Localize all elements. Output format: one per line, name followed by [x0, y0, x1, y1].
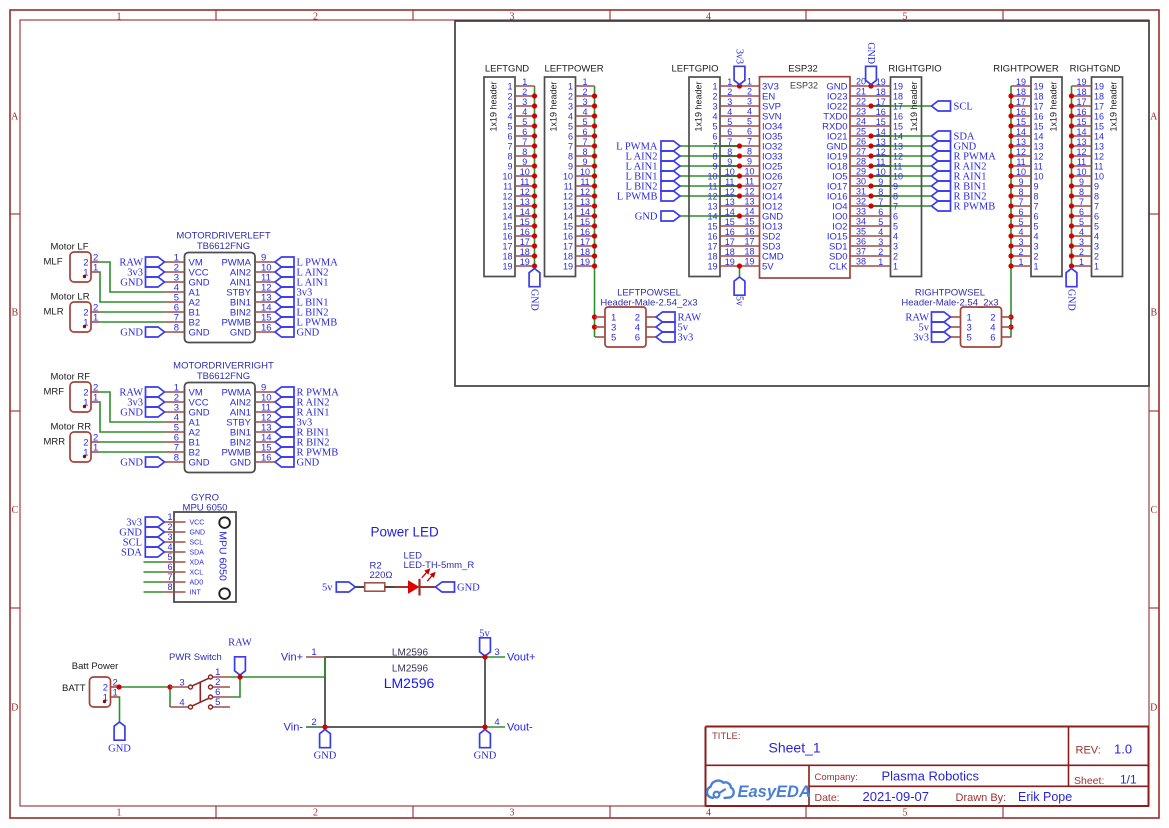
svg-text:13: 13	[893, 142, 903, 152]
svg-text:9: 9	[1018, 177, 1023, 187]
IC MOTORDRIVERLEFT right pins	[221, 253, 275, 339]
net flag 3v3 at GYRO pin 1	[126, 517, 164, 529]
svg-text:18: 18	[893, 92, 903, 102]
svg-text:SCL: SCL	[190, 540, 204, 547]
svg-text:LEFTPOWER: LEFTPOWER	[544, 64, 603, 75]
svg-text:16: 16	[876, 107, 886, 117]
svg-text:3: 3	[1034, 242, 1039, 252]
connector MLR box	[44, 292, 92, 333]
svg-text:LEFTGND: LEFTGND	[485, 64, 529, 75]
svg-text:12: 12	[580, 187, 590, 197]
svg-text:16: 16	[580, 227, 590, 237]
svg-text:LM2596: LM2596	[384, 675, 435, 691]
svg-text:ESP32: ESP32	[788, 64, 818, 75]
svg-text:GND: GND	[120, 328, 143, 339]
svg-text:TB6612FNG: TB6612FNG	[197, 241, 250, 252]
svg-text:16: 16	[261, 453, 272, 464]
svg-text:RIGHTPOWER: RIGHTPOWER	[993, 64, 1059, 75]
svg-text:4: 4	[507, 112, 512, 122]
svg-text:5: 5	[568, 122, 573, 132]
svg-text:3: 3	[582, 97, 587, 107]
svg-text:19: 19	[520, 257, 530, 267]
svg-text:8: 8	[1034, 192, 1039, 202]
svg-text:ESP32: ESP32	[790, 81, 818, 91]
svg-text:C: C	[1150, 505, 1157, 516]
svg-text:15: 15	[1016, 117, 1026, 127]
net flag GND at MOTORDRIVERRIGHT pin 3	[120, 407, 164, 419]
svg-text:9: 9	[1034, 182, 1039, 192]
svg-text:5: 5	[215, 697, 220, 708]
svg-text:6: 6	[568, 132, 573, 142]
wire overlays crossing LEFTGPIO stubs	[720, 146, 740, 216]
svg-text:9: 9	[507, 162, 512, 172]
ground flag GND below BATT	[108, 722, 131, 755]
svg-text:16: 16	[725, 227, 735, 237]
svg-text:2: 2	[1018, 247, 1023, 257]
LM2596 pin 1 Vin+	[281, 647, 325, 664]
connector RIGHTPOWSEL pins	[951, 313, 1012, 344]
svg-text:12: 12	[563, 192, 573, 202]
net flag L AIN1 at MOTORDRIVERLEFT pin 11	[275, 277, 328, 289]
svg-text:12: 12	[1094, 152, 1104, 162]
svg-text:11: 11	[580, 177, 589, 187]
svg-text:14: 14	[563, 212, 573, 222]
svg-text:11: 11	[708, 182, 717, 192]
svg-text:4: 4	[167, 542, 172, 552]
svg-text:4: 4	[706, 808, 711, 819]
svg-text:GND: GND	[120, 408, 143, 419]
svg-text:13: 13	[725, 197, 735, 207]
svg-text:13: 13	[520, 197, 530, 207]
svg-text:Erik Pope: Erik Pope	[1018, 790, 1072, 804]
svg-text:15: 15	[725, 217, 735, 227]
svg-text:17: 17	[1034, 102, 1044, 112]
ESP32 left pins 1-19	[740, 77, 784, 273]
wire R BIN1 flag to RIGHTGPIO pin 9	[871, 185, 932, 187]
svg-text:2: 2	[311, 717, 316, 728]
svg-text:2: 2	[507, 92, 512, 102]
svg-text:17: 17	[725, 237, 735, 247]
svg-text:6: 6	[893, 212, 898, 222]
net flag L PWMB at LEFTGPIO pin 12	[617, 191, 680, 203]
header RIGHTGND box	[1070, 64, 1123, 277]
wire motor F pin1 to A2	[99, 402, 165, 432]
connector BATT box	[62, 661, 118, 707]
svg-text:MLR: MLR	[44, 307, 64, 318]
wire motor F pin2 to A1	[99, 262, 165, 292]
IC MOTORDRIVERRIGHT right pins	[221, 383, 275, 469]
net flag RAW at RIGHTPOWSEL pin 1	[905, 312, 950, 324]
svg-text:6: 6	[522, 127, 527, 137]
IC GYRO pins	[164, 512, 205, 597]
svg-text:GND: GND	[314, 751, 337, 762]
svg-text:16: 16	[1076, 107, 1086, 117]
wire switch pin1 to LM2596 Vin+	[230, 657, 325, 677]
header LEFTGND box	[484, 64, 529, 277]
wire R PWMA flag to RIGHTGPIO pin 12	[871, 155, 932, 157]
svg-text:37: 37	[856, 247, 866, 257]
svg-text:PWR Switch: PWR Switch	[169, 652, 222, 663]
svg-text:22: 22	[856, 97, 866, 107]
svg-text:2: 2	[712, 92, 717, 102]
wire BATT pin2 to switch	[119, 687, 170, 707]
svg-text:6: 6	[167, 562, 172, 572]
connector MLF box	[44, 242, 92, 283]
connector MRF box	[44, 372, 92, 413]
svg-text:3v3: 3v3	[678, 333, 694, 344]
connector MRR pin1 marker	[83, 455, 86, 458]
net flag SDA at GYRO pin 4	[121, 547, 164, 559]
svg-text:16: 16	[893, 112, 903, 122]
svg-text:7: 7	[893, 202, 898, 212]
svg-text:GND: GND	[457, 583, 480, 594]
ESP32 right pins 20-38	[822, 77, 871, 273]
svg-text:5v: 5v	[734, 296, 745, 306]
header RIGHTGPIO pins	[871, 77, 903, 272]
ground flag GND at Vin-	[314, 730, 337, 762]
svg-text:5: 5	[1079, 217, 1084, 227]
svg-text:11: 11	[503, 182, 512, 192]
svg-text:17: 17	[520, 237, 530, 247]
net flag GND at RIGHTGPIO pin 13	[932, 141, 977, 153]
net flag SDA at RIGHTGPIO pin 14	[932, 131, 975, 143]
svg-text:Vout+: Vout+	[507, 652, 535, 664]
svg-text:2: 2	[727, 87, 732, 97]
svg-text:19: 19	[1076, 77, 1086, 87]
wire switch pin6 to RAW	[230, 677, 240, 697]
svg-text:Header-Male-2.54_2x3: Header-Male-2.54_2x3	[901, 297, 998, 308]
net flag 3v3 at MOTORDRIVERRIGHT pin 2	[127, 397, 164, 409]
connector MLF pins	[83, 253, 99, 279]
svg-text:1/1: 1/1	[1120, 773, 1137, 787]
svg-text:4: 4	[582, 107, 587, 117]
IC MOTORDRIVERRIGHT TB6612FNG box	[173, 361, 274, 473]
svg-text:2: 2	[1079, 247, 1084, 257]
header LEFTPOWER pins	[563, 77, 595, 272]
svg-text:16: 16	[502, 232, 512, 242]
svg-text:32: 32	[856, 197, 866, 207]
svg-text:VCC: VCC	[190, 520, 205, 527]
net flag L AIN1 at LEFTGPIO pin 9	[626, 161, 680, 173]
power flag 5v below ESP32 pin19	[734, 277, 745, 306]
connector MRR pins	[83, 433, 99, 459]
svg-text:Sheet:: Sheet:	[1074, 775, 1104, 787]
svg-text:17: 17	[580, 237, 590, 247]
wire overlay at LM2596 Vin+ corner	[324, 656, 326, 677]
svg-text:RIGHTGND: RIGHTGND	[1070, 64, 1121, 75]
svg-text:Vin-: Vin-	[284, 722, 304, 734]
svg-text:17: 17	[502, 242, 512, 252]
net flag GND at GYRO pin 2	[119, 527, 164, 539]
svg-text:A: A	[1150, 112, 1158, 123]
svg-text:5v: 5v	[322, 583, 333, 594]
svg-text:LM2596: LM2596	[392, 648, 429, 659]
svg-text:27: 27	[856, 147, 866, 157]
svg-text:8: 8	[1079, 187, 1084, 197]
net flag R PWMB at RIGHTGPIO pin 7	[932, 201, 996, 213]
svg-text:Power LED: Power LED	[371, 525, 440, 540]
svg-text:TB6612FNG: TB6612FNG	[197, 371, 250, 382]
svg-text:7: 7	[1034, 202, 1039, 212]
net flag 3v3 at RIGHTPOWSEL pin 5	[913, 332, 950, 344]
svg-text:AD0: AD0	[190, 580, 204, 587]
EasyEDA logo	[707, 781, 811, 801]
svg-text:1: 1	[311, 647, 316, 658]
svg-text:GND: GND	[189, 458, 210, 469]
svg-text:12: 12	[1034, 152, 1044, 162]
svg-text:2: 2	[1034, 252, 1039, 262]
svg-text:GND: GND	[230, 328, 251, 339]
svg-text:1: 1	[1094, 262, 1099, 272]
svg-text:15: 15	[563, 222, 573, 232]
svg-text:4: 4	[1034, 232, 1039, 242]
svg-text:5: 5	[967, 333, 972, 344]
net flag 3v3 at LEFTPOWSEL pin 6	[656, 332, 693, 344]
svg-text:7: 7	[747, 137, 752, 147]
header LEFTPOWER box	[544, 64, 603, 277]
svg-text:10: 10	[1034, 172, 1044, 182]
svg-text:18: 18	[725, 247, 735, 257]
svg-text:14: 14	[1034, 132, 1044, 142]
svg-text:5: 5	[582, 117, 587, 127]
wire 5v flag to R2	[355, 586, 364, 588]
net flag 3v3 at MOTORDRIVERLEFT pin 2	[127, 267, 164, 279]
junction switch input	[167, 684, 172, 689]
svg-text:11: 11	[1034, 162, 1043, 172]
svg-text:4: 4	[179, 697, 184, 708]
net flag GND at MOTORDRIVERLEFT pin 8	[120, 327, 164, 339]
net flag SCL at GYRO pin 3	[123, 537, 165, 549]
svg-text:1: 1	[582, 77, 587, 87]
svg-text:MRF: MRF	[44, 387, 65, 398]
svg-text:Date:: Date:	[815, 792, 840, 804]
header RIGHTGPIO box	[888, 64, 941, 277]
wire GND flag to RIGHTGPIO pin 13	[871, 145, 932, 147]
svg-text:5: 5	[903, 808, 908, 819]
connector MLR pin1 marker	[83, 325, 86, 328]
svg-text:GND: GND	[108, 744, 131, 755]
regulator LM2596 outline	[325, 648, 485, 728]
svg-text:13: 13	[563, 202, 573, 212]
wire LEFTGND bus	[534, 86, 536, 267]
svg-text:16: 16	[1016, 107, 1026, 117]
svg-text:17: 17	[893, 102, 903, 112]
svg-text:2: 2	[313, 11, 318, 22]
wire GND flag to LEFTGPIO pin 14	[680, 215, 740, 217]
svg-text:7: 7	[568, 142, 573, 152]
svg-text:8: 8	[712, 152, 717, 162]
svg-text:5: 5	[1094, 222, 1099, 232]
junctions ESP32 right column	[868, 83, 873, 208]
svg-text:16: 16	[707, 232, 717, 242]
svg-text:6: 6	[727, 127, 732, 137]
net flag R BIN2 at RIGHTGPIO pin 8	[932, 191, 987, 203]
svg-text:BATT: BATT	[62, 683, 86, 694]
svg-text:Motor RR: Motor RR	[51, 422, 92, 433]
svg-text:CLK: CLK	[829, 262, 848, 273]
ground flag GND below RIGHTGND	[1066, 269, 1077, 311]
svg-text:1: 1	[117, 808, 122, 819]
net flag R PWMA at RIGHTGPIO pin 12	[932, 151, 997, 163]
svg-text:15: 15	[502, 222, 512, 232]
connector LEFTPOWSEL box	[600, 288, 697, 348]
wire R2 to LED	[385, 586, 408, 588]
svg-text:8: 8	[568, 152, 573, 162]
svg-text:1: 1	[727, 77, 732, 87]
svg-text:20: 20	[856, 77, 866, 87]
wire R AIN1 flag to RIGHTGPIO pin 10	[871, 175, 932, 177]
svg-text:MRR: MRR	[44, 437, 66, 448]
header LEFTGPIO box	[672, 64, 720, 277]
svg-text:6: 6	[747, 127, 752, 137]
wire SDA flag to RIGHTGPIO pin 14	[871, 135, 932, 137]
svg-text:LEFTGPIO: LEFTGPIO	[672, 64, 719, 75]
junctions ESP32 left column	[737, 83, 742, 268]
net flag L AIN2 at MOTORDRIVERLEFT pin 10	[275, 267, 328, 279]
svg-text:6: 6	[507, 132, 512, 142]
header LEFTGPIO pins	[707, 77, 739, 272]
resistor R2 220ohm	[365, 561, 393, 592]
svg-text:6: 6	[582, 127, 587, 137]
net flag L BIN1 at LEFTGPIO pin 10	[626, 171, 680, 183]
svg-text:18: 18	[1034, 92, 1044, 102]
svg-text:Drawn By:: Drawn By:	[956, 792, 1007, 804]
svg-text:19: 19	[893, 82, 903, 92]
svg-text:31: 31	[856, 187, 866, 197]
svg-text:5: 5	[522, 117, 527, 127]
wire SCL flag to RIGHTGPIO pin 17	[871, 105, 932, 107]
svg-text:LED-TH-5mm_R: LED-TH-5mm_R	[404, 560, 475, 571]
net flag GND at MOTORDRIVERLEFT pin 16	[275, 327, 320, 339]
svg-text:2: 2	[582, 87, 587, 97]
wire 5v stub below ESP32 pin 19	[739, 266, 741, 277]
net flag GND at LEFTGPIO pin 14	[635, 211, 680, 223]
svg-text:4: 4	[878, 227, 883, 237]
svg-text:3v3: 3v3	[913, 333, 929, 344]
wire LEFTPOWER bus	[594, 86, 596, 337]
svg-text:Motor LF: Motor LF	[51, 242, 89, 253]
junctions RIGHTGND bus	[1069, 93, 1074, 268]
net flag 3v3 at MOTORDRIVERLEFT pin 12	[275, 287, 312, 299]
svg-text:17: 17	[1016, 97, 1026, 107]
svg-text:10: 10	[1076, 167, 1086, 177]
svg-text:36: 36	[856, 237, 866, 247]
svg-text:9: 9	[568, 162, 573, 172]
wire RIGHTGND bus	[1071, 86, 1073, 267]
svg-text:3: 3	[1094, 242, 1099, 252]
title block	[706, 727, 1150, 807]
net flag L PWMA at LEFTGPIO pin 7	[616, 141, 680, 153]
connector LEFTPOWSEL pins	[595, 313, 656, 344]
svg-text:6: 6	[635, 333, 640, 344]
svg-text:3: 3	[893, 242, 898, 252]
svg-text:SCL: SCL	[954, 102, 973, 113]
net flag 5v at LEFTPOWSEL pin 4	[656, 322, 689, 334]
IC GYRO MPU 6050 box	[174, 493, 236, 603]
svg-text:11: 11	[520, 177, 529, 187]
svg-text:24: 24	[856, 117, 866, 127]
svg-text:1: 1	[93, 393, 98, 404]
ground flag GND above ESP32 pin20	[865, 42, 876, 84]
svg-text:MPU 6050: MPU 6050	[217, 531, 229, 581]
svg-text:220Ω: 220Ω	[370, 570, 393, 581]
svg-text:9: 9	[747, 157, 752, 167]
svg-text:1: 1	[167, 512, 172, 522]
svg-text:18: 18	[502, 252, 512, 262]
ground flag GND after LED	[436, 582, 481, 594]
svg-text:17: 17	[1076, 97, 1086, 107]
svg-text:12: 12	[1016, 147, 1026, 157]
svg-text:18: 18	[1094, 92, 1104, 102]
svg-text:19: 19	[580, 257, 590, 267]
LM2596 pin 2 Vin-	[284, 717, 325, 734]
svg-text:6: 6	[712, 132, 717, 142]
svg-text:1x19 header: 1x19 header	[1109, 81, 1119, 131]
svg-text:3: 3	[507, 102, 512, 112]
svg-text:1: 1	[1034, 262, 1039, 272]
svg-text:5: 5	[747, 117, 752, 127]
svg-text:MLF: MLF	[44, 257, 63, 268]
switch PWR Switch	[169, 652, 230, 709]
net flag SCL at RIGHTGPIO pin 17	[932, 101, 973, 113]
svg-text:3: 3	[522, 97, 527, 107]
module U? ESP32 box	[760, 64, 851, 279]
svg-text:11: 11	[1094, 162, 1103, 172]
svg-text:1: 1	[522, 77, 527, 87]
svg-text:4: 4	[1018, 227, 1023, 237]
svg-text:9: 9	[582, 157, 587, 167]
svg-text:Header-Male-2.54_2x3: Header-Male-2.54_2x3	[600, 297, 697, 308]
svg-text:2: 2	[167, 522, 172, 532]
net flag R AIN1 at RIGHTGPIO pin 10	[932, 171, 987, 183]
module boundary box	[455, 21, 1149, 386]
svg-text:18: 18	[876, 87, 886, 97]
svg-text:17: 17	[1094, 102, 1104, 112]
svg-text:19: 19	[744, 257, 754, 267]
svg-text:4: 4	[727, 107, 732, 117]
svg-text:7: 7	[167, 572, 172, 582]
svg-text:5v: 5v	[479, 629, 490, 640]
junctions RIGHTPOWER bus	[1008, 93, 1013, 329]
svg-text:9: 9	[893, 182, 898, 192]
svg-text:GND: GND	[1066, 289, 1077, 311]
svg-text:13: 13	[1094, 142, 1104, 152]
svg-text:13: 13	[1016, 137, 1026, 147]
svg-text:1: 1	[712, 82, 717, 92]
junctions LEFTPOWER bus	[592, 93, 597, 329]
connector MLF pin1 marker	[83, 275, 86, 278]
svg-text:16: 16	[261, 323, 272, 334]
wires GYRO pins 5-8 unconnected	[144, 562, 165, 592]
svg-text:13: 13	[744, 197, 754, 207]
net flag 3v3 at MOTORDRIVERRIGHT pin 12	[275, 417, 312, 429]
svg-text:RAW: RAW	[228, 638, 252, 649]
svg-text:38: 38	[856, 257, 866, 267]
svg-text:D: D	[1150, 703, 1157, 714]
wire motor F pin2 to A1	[99, 392, 165, 422]
svg-text:7: 7	[522, 137, 527, 147]
wire L AIN1 flag to LEFTGPIO pin 9	[680, 165, 740, 167]
svg-text:4: 4	[1079, 227, 1084, 237]
svg-text:2: 2	[747, 87, 752, 97]
svg-text:9: 9	[522, 157, 527, 167]
svg-text:3: 3	[878, 237, 883, 247]
power flag 5v to R2	[322, 582, 355, 594]
svg-text:5: 5	[611, 333, 616, 344]
svg-text:XDA: XDA	[190, 560, 205, 567]
net flag R BIN1 at MOTORDRIVERRIGHT pin 13	[275, 427, 329, 439]
svg-text:2: 2	[1094, 252, 1099, 262]
